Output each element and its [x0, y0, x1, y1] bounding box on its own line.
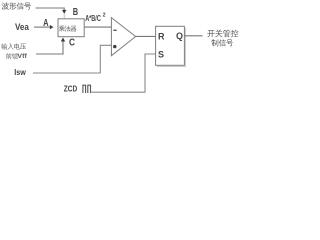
- svg-text:Isw: Isw: [14, 67, 26, 77]
- wire: ZCD to S input: [91, 54, 156, 92]
- comparator dot/plus mark (bottom input): [113, 45, 116, 48]
- svg-text:Q: Q: [176, 31, 183, 41]
- wire: Isw to comparator bottom input: [33, 45, 111, 73]
- wire: Vff to multiplier C input: [36, 41, 63, 54]
- wire: comparator output to R input: [136, 35, 156, 37]
- label: switch-control-signal 开关管控: [207, 29, 238, 37]
- multiplier box U1 乘法器: [58, 19, 84, 37]
- arrowhead C (up): [61, 38, 65, 42]
- comparator minus mark (top input): [113, 30, 116, 31]
- wire: multiplier output to comparator top input: [84, 26, 111, 28]
- label: switch-control-signal 制信号: [211, 39, 233, 46]
- svg-text:B: B: [73, 7, 79, 18]
- ZCD pulse waveform: [83, 85, 91, 93]
- svg-text:S: S: [158, 49, 164, 59]
- svg-text:A: A: [43, 18, 49, 29]
- svg-text:A*B/C: A*B/C: [85, 14, 101, 23]
- svg-text:R: R: [158, 32, 165, 42]
- svg-text:Vff: Vff: [17, 53, 27, 60]
- arrowhead B (down): [62, 10, 66, 14]
- svg-text:ZCD: ZCD: [64, 83, 77, 93]
- wire: Q output: [184, 35, 202, 37]
- svg-text:2: 2: [103, 13, 106, 19]
- wire: waveform signal to multiplier B input: [36, 8, 65, 10]
- svg-text:C: C: [69, 38, 75, 49]
- RS flip-flop U3: [157, 28, 186, 67]
- wire: Vea to multiplier A input: [34, 26, 50, 28]
- comparator U2 (triangle): [111, 18, 135, 56]
- arrowhead A (right): [50, 25, 54, 29]
- label: input-voltage-feedforward 输入电压 前馈Vff: [1, 43, 26, 49]
- svg-text:Vea: Vea: [15, 22, 30, 32]
- label: waveform-signal 波形信号: [2, 2, 31, 9]
